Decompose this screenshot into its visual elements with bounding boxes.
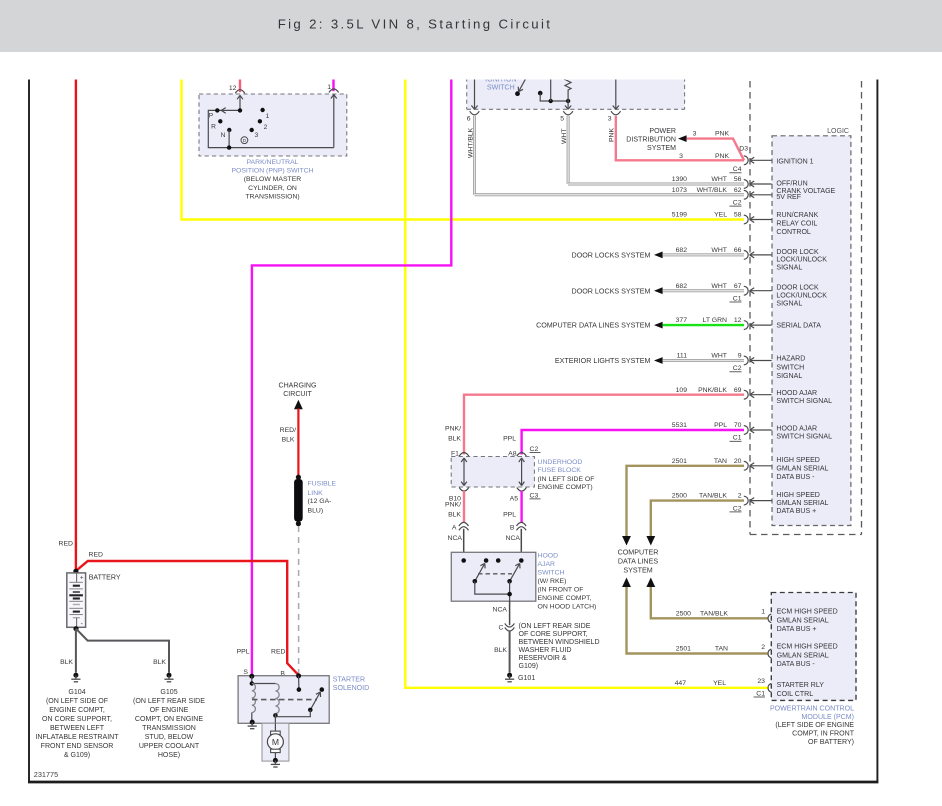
- ignition switch box (top cropped): [467, 70, 685, 109]
- svg-text:PPL: PPL: [237, 649, 250, 656]
- svg-text:BLK: BLK: [494, 647, 507, 654]
- svg-text:OF ENGINE: OF ENGINE: [150, 707, 189, 714]
- ignition switch label: [485, 76, 516, 91]
- wire TAN/BLK 2500 (PCM 2 to data lines): [651, 501, 744, 537]
- svg-text:AJAR: AJAR: [538, 561, 556, 568]
- fusible link (12 GA BLU): [294, 475, 303, 527]
- svg-text:3: 3: [693, 131, 697, 138]
- svg-text:RESERVOIR &: RESERVOIR &: [519, 655, 567, 662]
- svg-text:TAN/BLK: TAN/BLK: [699, 493, 727, 500]
- PCM LOGIC box: [772, 128, 851, 525]
- ground G104: [71, 673, 80, 682]
- svg-text:231775: 231775: [34, 770, 58, 779]
- PCM outer connector dashed line (left): [749, 70, 751, 535]
- svg-text:C2: C2: [733, 365, 742, 372]
- svg-text:PNK: PNK: [715, 153, 730, 160]
- svg-text:STARTER: STARTER: [333, 677, 365, 684]
- svg-text:DATA BUS +: DATA BUS +: [777, 626, 817, 633]
- arrow down to computer data lines (right): [646, 536, 655, 546]
- solenoid hold-in coil: [273, 684, 279, 724]
- connector C2 label (fuse top): [530, 446, 541, 453]
- svg-text:109: 109: [676, 387, 688, 394]
- svg-text:BATTERY: BATTERY: [89, 575, 121, 582]
- svg-text:& G109): & G109): [64, 752, 90, 759]
- svg-text:G101: G101: [518, 675, 535, 682]
- PCM lower box: [771, 593, 856, 701]
- wire PPL below fuse (A5 to B): [503, 491, 522, 523]
- svg-text:IGNITION 1: IGNITION 1: [776, 159, 813, 166]
- svg-text:BLK: BLK: [153, 659, 166, 666]
- svg-text:FRONT END SENSOR: FRONT END SENSOR: [41, 743, 114, 750]
- svg-text:SIGNAL: SIGNAL: [776, 265, 802, 272]
- svg-text:6: 6: [467, 115, 471, 122]
- svg-text:2500: 2500: [672, 493, 687, 500]
- svg-text:377: 377: [676, 317, 688, 324]
- solenoid moving contact lever: [308, 692, 321, 712]
- PCM outer dashed box right edge: [861, 70, 863, 535]
- ignition switch contact and link wire: [538, 70, 570, 103]
- svg-text:2: 2: [738, 493, 742, 500]
- svg-text:DATA BUS +: DATA BUS +: [776, 508, 816, 515]
- wire PNK 3 from power distribution to PCM C4: [687, 131, 744, 161]
- svg-text:G104: G104: [68, 689, 85, 696]
- ignition resistor element: [565, 70, 571, 101]
- svg-text:TAN: TAN: [715, 646, 728, 653]
- solenoid pull-in coil: [252, 684, 256, 723]
- ignition pin 3: [608, 70, 621, 122]
- svg-text:OFF/RUN: OFF/RUN: [776, 180, 807, 187]
- svg-text:3: 3: [608, 115, 612, 122]
- computer data lines system label: [618, 548, 659, 574]
- svg-text:GMLAN SERIAL: GMLAN SERIAL: [776, 466, 828, 473]
- fuse A5 exit: [510, 488, 527, 503]
- svg-text:DISTRIBUTION: DISTRIBUTION: [626, 136, 676, 143]
- starter solenoid B junction: [296, 673, 301, 678]
- svg-text:G105: G105: [160, 689, 177, 696]
- svg-text:9: 9: [738, 353, 742, 360]
- svg-text:66: 66: [734, 247, 742, 254]
- starter motor ground: [271, 758, 280, 767]
- starter motor: [267, 731, 283, 753]
- svg-text:A5: A5: [510, 495, 519, 502]
- wire TAN/BLK 2500 (data lines to PCM-2 pin 1): [651, 587, 768, 618]
- svg-text:DOOR LOCKS SYSTEM: DOOR LOCKS SYSTEM: [572, 252, 651, 260]
- svg-text:G109): G109): [519, 663, 539, 670]
- svg-text:C1: C1: [733, 295, 742, 302]
- PNP contact 2: [258, 119, 268, 131]
- svg-text:TRANSMISSION): TRANSMISSION): [245, 193, 299, 200]
- svg-text:WHT: WHT: [561, 129, 568, 144]
- svg-text:INFLATABLE RESTRAINT: INFLATABLE RESTRAINT: [35, 734, 119, 741]
- PCM pin 12 - SERIAL DATA: [676, 317, 822, 330]
- svg-text:(LEFT SIDE OF ENGINE: (LEFT SIDE OF ENGINE: [775, 722, 854, 729]
- svg-text:ENGINE COMPT,: ENGINE COMPT,: [49, 707, 105, 714]
- svg-text:RUN/CRANK: RUN/CRANK: [776, 212, 818, 219]
- label RED at solenoid B: [271, 649, 286, 656]
- door locks system reference (pin 66): [572, 252, 744, 260]
- label 2500 TAN/BLK 1 (lower): [676, 610, 729, 617]
- svg-text:YEL: YEL: [713, 680, 726, 687]
- wire RED/BLK charging to fusible link: [280, 409, 299, 477]
- svg-text:EXTERIOR LIGHTS SYSTEM: EXTERIOR LIGHTS SYSTEM: [555, 357, 651, 365]
- PNP contact P: [209, 108, 220, 119]
- solenoid fixed contact: [320, 687, 325, 692]
- wire TAN 2501 (PCM 20 to data lines): [627, 466, 745, 536]
- svg-text:HOOD: HOOD: [538, 552, 559, 559]
- PCM pin 56 - OFF/RUN: [672, 176, 808, 188]
- svg-text:DATA BUS -: DATA BUS -: [776, 474, 815, 481]
- svg-text:SYSTEM: SYSTEM: [647, 145, 676, 152]
- svg-text:SOLENOID: SOLENOID: [333, 685, 369, 692]
- svg-text:PARK/NEUTRAL: PARK/NEUTRAL: [247, 159, 299, 166]
- svg-text:RED: RED: [89, 551, 104, 558]
- PNP contact R: [211, 119, 222, 131]
- fuse F1 entry: [451, 450, 469, 457]
- svg-text:WHT: WHT: [711, 247, 727, 254]
- arrow up from computer data lines (right): [646, 578, 655, 588]
- svg-text:COMPUTER: COMPUTER: [618, 548, 659, 556]
- svg-text:69: 69: [734, 387, 742, 394]
- computer data lines system reference (pin 12): [536, 322, 744, 330]
- svg-text:DOOR LOCKS SYSTEM: DOOR LOCKS SYSTEM: [572, 287, 651, 295]
- starter solenoid S junction: [249, 674, 254, 679]
- svg-text:UPPER COOLANT: UPPER COOLANT: [139, 743, 200, 750]
- svg-text:ON HOOD LATCH): ON HOOD LATCH): [538, 603, 597, 610]
- svg-text:ECM HIGH SPEED: ECM HIGH SPEED: [777, 608, 838, 615]
- svg-text:(12 GA-: (12 GA-: [308, 498, 332, 505]
- svg-text:MODULE (PCM): MODULE (PCM): [802, 714, 854, 721]
- wire PNK/BLK 109 (PCM 69 to fuse F1): [445, 395, 744, 455]
- title bar: [0, 0, 942, 52]
- label 2501 TAN 2 (lower): [676, 646, 728, 653]
- svg-text:LINK: LINK: [308, 490, 324, 497]
- svg-text:WHT: WHT: [711, 283, 727, 290]
- label 447 YEL 23: [675, 680, 727, 687]
- svg-text:C4: C4: [733, 166, 742, 173]
- svg-text:PNK: PNK: [715, 131, 730, 138]
- svg-text:DOOR LOCK: DOOR LOCK: [776, 285, 819, 292]
- svg-text:2500: 2500: [676, 610, 691, 617]
- svg-text:(BELOW MASTER: (BELOW MASTER: [244, 176, 301, 183]
- ground G101: [505, 673, 535, 682]
- svg-text:682: 682: [676, 283, 688, 290]
- svg-text:B: B: [510, 524, 515, 531]
- wire YEL 447 (vertical drop to starter rly row): [405, 70, 767, 688]
- svg-text:ENGINE COMPT): ENGINE COMPT): [538, 484, 593, 491]
- svg-text:WHT/BLK: WHT/BLK: [697, 187, 728, 194]
- starter solenoid box: [238, 676, 329, 724]
- svg-text:TAN: TAN: [714, 458, 727, 465]
- solenoid linkage (dashed): [252, 699, 317, 701]
- svg-text:STUD, BELOW: STUD, BELOW: [145, 734, 194, 741]
- PNP contact 1: [260, 108, 269, 120]
- pin D3 label: [739, 146, 748, 153]
- svg-text:C1: C1: [733, 435, 742, 442]
- wire TAN 2501 (data lines to PCM-2 pin 2): [627, 587, 768, 654]
- svg-text:111: 111: [677, 353, 688, 360]
- ignition switch lever: [515, 79, 525, 96]
- hood ajar switch box: [451, 552, 536, 601]
- svg-text:CHARGING: CHARGING: [279, 382, 317, 389]
- svg-text:70: 70: [734, 422, 742, 429]
- powertrain control module label: [770, 705, 855, 746]
- svg-text:SWITCH: SWITCH: [538, 569, 565, 576]
- svg-text:PPL: PPL: [714, 422, 727, 429]
- svg-text:C2: C2: [733, 200, 742, 207]
- svg-text:NCA: NCA: [493, 607, 508, 614]
- svg-text:DATA BUS -: DATA BUS -: [777, 661, 816, 668]
- hood ajar switch lever right: [507, 563, 520, 583]
- PCM pin 70 - HOOD AJAR SWITCH SIGNAL: [672, 422, 832, 442]
- wire BLK battery to G105: [76, 629, 169, 673]
- svg-text:WHT: WHT: [711, 176, 727, 183]
- hood ajar switch label: [538, 552, 597, 610]
- svg-text:COIL CTRL: COIL CTRL: [777, 691, 814, 698]
- wire PNK stub to PNP pin 12: [239, 70, 241, 92]
- svg-text:UNDERHOOD: UNDERHOOD: [538, 459, 583, 466]
- fuse element F1-B10: [461, 458, 467, 486]
- svg-text:HOOD AJAR: HOOD AJAR: [776, 390, 817, 397]
- solenoid coil top wire: [250, 676, 276, 686]
- svg-text:POSITION (PNP) SWITCH: POSITION (PNP) SWITCH: [231, 168, 313, 175]
- wire PNK 3 from pin 3: [609, 116, 745, 161]
- label S terminal: [243, 669, 248, 676]
- svg-text:FUSE BLOCK: FUSE BLOCK: [538, 467, 582, 474]
- arrow up from computer data lines (left): [622, 578, 631, 588]
- fusible link label: [308, 480, 337, 514]
- svg-text:PNK/: PNK/: [445, 502, 461, 509]
- svg-text:PNK/BLK: PNK/BLK: [698, 387, 727, 394]
- svg-text:2501: 2501: [676, 646, 691, 653]
- svg-text:POWERTRAIN CONTROL: POWERTRAIN CONTROL: [770, 705, 854, 712]
- svg-text:2: 2: [264, 124, 268, 131]
- PNP contact 3: [250, 128, 259, 139]
- svg-text:BLK: BLK: [282, 437, 295, 444]
- svg-text:SWITCH SIGNAL: SWITCH SIGNAL: [776, 434, 832, 441]
- fuse B10 exit: [449, 488, 469, 503]
- wire RED battery feed (vertical from top to battery +): [75, 70, 77, 572]
- svg-text:LOCK/UNLOCK: LOCK/UNLOCK: [776, 257, 827, 264]
- PCM pin 67 - DOOR LOCK LOCK/UNLOCK SIGNAL: [676, 283, 828, 308]
- svg-text:56: 56: [734, 176, 742, 183]
- svg-text:C1: C1: [756, 690, 765, 697]
- svg-text:WASHER FLUID: WASHER FLUID: [519, 647, 572, 654]
- svg-text:3: 3: [679, 153, 683, 160]
- solenoid coil ground: [248, 720, 257, 729]
- svg-text:2: 2: [761, 644, 765, 651]
- PCM pin C4 entry - IGNITION 1: [744, 156, 814, 166]
- wire PPL 5531 (PCM 70 to fuse A8): [503, 430, 744, 455]
- svg-text:12: 12: [229, 85, 237, 92]
- svg-text:A8: A8: [508, 450, 517, 457]
- svg-text:ENGINE COMPT,: ENGINE COMPT,: [538, 595, 592, 602]
- svg-text:CIRCUIT: CIRCUIT: [283, 391, 312, 398]
- svg-text:RED/: RED/: [280, 427, 296, 434]
- hood ajar switch linkage (dashed): [478, 573, 512, 575]
- svg-text:HIGH SPEED: HIGH SPEED: [776, 457, 819, 464]
- figure number 231775: [34, 770, 58, 779]
- svg-text:1073: 1073: [672, 187, 687, 194]
- solenoid lever wire: [275, 710, 310, 717]
- svg-text:2501: 2501: [672, 458, 687, 465]
- starter solenoid label: [333, 677, 369, 693]
- svg-text:PNK/: PNK/: [445, 426, 461, 433]
- svg-text:C3: C3: [530, 492, 539, 499]
- svg-text:HOSE): HOSE): [158, 752, 180, 759]
- wire WHT/BLK 1073 from pin 6: [467, 116, 744, 195]
- svg-text:C2: C2: [733, 505, 742, 512]
- starter motor wire bottom: [274, 753, 276, 759]
- svg-text:682: 682: [676, 247, 688, 254]
- hood ajar switch lever left: [473, 563, 486, 583]
- svg-text:STARTER RLY: STARTER RLY: [777, 682, 825, 689]
- svg-text:+: +: [80, 575, 84, 582]
- ground G105: [164, 673, 173, 682]
- svg-text:NCA: NCA: [448, 535, 463, 542]
- svg-text:62: 62: [734, 187, 742, 194]
- svg-text:PNK: PNK: [609, 128, 616, 142]
- wire B to hood ajar switch: [506, 529, 522, 561]
- svg-text:447: 447: [675, 680, 687, 687]
- svg-text:PPL: PPL: [503, 511, 516, 518]
- label RED (starter feed): [89, 551, 104, 558]
- PCM pin 58 - RUN/CRANK RELAY COIL CONTROL: [672, 212, 819, 237]
- svg-text:HOOD AJAR: HOOD AJAR: [776, 425, 817, 432]
- svg-text:SIGNAL: SIGNAL: [776, 300, 802, 307]
- svg-text:COMPT, IN FRONT: COMPT, IN FRONT: [792, 731, 855, 738]
- PCM-2 pin 23 - STARTER RLY COIL CTRL: [754, 678, 825, 698]
- PNP contact N: [221, 128, 232, 139]
- svg-text:NCA: NCA: [506, 535, 521, 542]
- svg-text:A: A: [452, 524, 457, 531]
- svg-text:(IN LEFT SIDE OF: (IN LEFT SIDE OF: [538, 476, 595, 483]
- svg-text:ON CORE SUPPORT,: ON CORE SUPPORT,: [42, 716, 112, 723]
- PNP pin 1 entry: [327, 84, 338, 147]
- battery box: [67, 573, 86, 627]
- wire (hidden) fusible link to solenoid B: [298, 526, 300, 676]
- svg-text:P: P: [209, 113, 214, 120]
- svg-text:BETWEEN LEFT: BETWEEN LEFT: [50, 725, 105, 732]
- PNP contact N drop wire: [227, 130, 231, 150]
- svg-text:(ON LEFT SIDE OF: (ON LEFT SIDE OF: [46, 698, 109, 705]
- inline connector A: [452, 522, 469, 531]
- svg-text:CONTROL: CONTROL: [776, 229, 811, 236]
- svg-text:SERIAL DATA: SERIAL DATA: [776, 323, 821, 330]
- PCM pin 62 - CRANK VOLTAGE 5V REF: [672, 187, 836, 207]
- svg-text:HIGH SPEED: HIGH SPEED: [776, 492, 819, 499]
- svg-text:BLK: BLK: [60, 659, 73, 666]
- label RED (battery feed): [59, 540, 74, 547]
- PNP pin 12 entry: [229, 85, 245, 111]
- svg-text:HAZARD: HAZARD: [776, 356, 805, 363]
- underhood fuse block box: [451, 457, 534, 488]
- connector C3 label (fuse bottom): [530, 492, 541, 499]
- svg-text:TAN/BLK: TAN/BLK: [700, 610, 728, 617]
- svg-text:YEL: YEL: [714, 212, 727, 219]
- battery label: [89, 575, 121, 582]
- wire A to hood ajar switch: [448, 529, 464, 561]
- svg-text:BLK: BLK: [448, 435, 461, 442]
- PCM pin 69 - HOOD AJAR SWITCH SIGNAL: [676, 387, 833, 405]
- svg-text:BLK: BLK: [448, 511, 461, 518]
- solenoid contact B drop: [297, 676, 302, 692]
- svg-text:BETWEEN WINDSHIELD: BETWEEN WINDSHIELD: [519, 639, 600, 646]
- G104 location note: [35, 689, 119, 759]
- PNP wiper arrow: [221, 108, 242, 114]
- svg-text:N: N: [221, 132, 226, 139]
- svg-text:20: 20: [734, 458, 742, 465]
- PCM-2 pin 1 - ECM HIGH SPEED GMLAN SERIAL DATA BUS +: [761, 608, 838, 633]
- svg-text:D3: D3: [739, 146, 748, 153]
- svg-text:5V REF: 5V REF: [776, 194, 801, 201]
- svg-text:LT GRN: LT GRN: [703, 317, 728, 324]
- svg-text:S: S: [243, 669, 248, 676]
- G105 location note: [133, 689, 205, 759]
- svg-text:23: 23: [757, 678, 765, 685]
- charging circuit reference: [279, 382, 317, 409]
- svg-text:WHT/BLK: WHT/BLK: [467, 127, 474, 158]
- wire RED battery to starter (branch): [76, 561, 299, 675]
- svg-text:F1: F1: [451, 450, 459, 457]
- PCM pin 2 - HIGH SPEED GMLAN SERIAL DATA BUS +: [672, 492, 829, 515]
- svg-text:(IN FRONT OF: (IN FRONT OF: [538, 586, 584, 593]
- ignition pin 5: [560, 101, 573, 122]
- svg-text:LOCK/UNLOCK: LOCK/UNLOCK: [776, 293, 827, 300]
- hood ajar switch internal wire: [475, 581, 512, 601]
- svg-text:1: 1: [266, 113, 270, 120]
- svg-text:COMPUTER DATA LINES SYSTEM: COMPUTER DATA LINES SYSTEM: [536, 322, 650, 330]
- svg-text:ECM HIGH SPEED: ECM HIGH SPEED: [777, 644, 838, 651]
- inline connector B: [510, 522, 526, 531]
- wire PPL stub to PNP pin 1: [332, 70, 334, 91]
- svg-text:RED: RED: [271, 649, 286, 656]
- svg-text:COMPT, ON ENGINE: COMPT, ON ENGINE: [135, 716, 203, 723]
- svg-text:5199: 5199: [672, 212, 687, 219]
- svg-text:DATA LINES: DATA LINES: [618, 557, 658, 565]
- svg-text:58: 58: [734, 212, 742, 219]
- svg-text:LOGIC: LOGIC: [827, 128, 849, 135]
- PNP switch internal frame: [208, 110, 333, 147]
- svg-text:(ON LEFT REAR SIDE: (ON LEFT REAR SIDE: [133, 698, 205, 705]
- exterior lights system reference (pin 9): [555, 357, 744, 365]
- svg-text:SWITCH SIGNAL: SWITCH SIGNAL: [776, 398, 832, 405]
- svg-text:CYLINDER, ON: CYLINDER, ON: [248, 185, 297, 192]
- inline connector C: [499, 623, 515, 631]
- svg-text:SWITCH: SWITCH: [776, 364, 804, 371]
- wire WHT 1390 from pin 5: [561, 116, 744, 184]
- wire BLK battery to G104: [60, 629, 76, 673]
- svg-text:SIGNAL: SIGNAL: [776, 373, 802, 380]
- battery cell plates: [69, 573, 84, 628]
- park/neutral position switch box: [199, 94, 347, 156]
- label 3 PNK lower: [679, 153, 729, 160]
- svg-text:GMLAN SERIAL: GMLAN SERIAL: [776, 500, 828, 507]
- svg-text:M: M: [272, 737, 279, 747]
- door locks system reference (pin 67): [572, 287, 744, 295]
- svg-text:(W/ RKE): (W/ RKE): [538, 578, 567, 585]
- svg-text:1390: 1390: [672, 176, 687, 183]
- fuse element A8-A5: [519, 458, 525, 486]
- PCM pin 20 - HIGH SPEED GMLAN SERIAL DATA BUS -: [672, 457, 829, 481]
- svg-text:OF BATTERY): OF BATTERY): [808, 739, 854, 746]
- svg-text:POWER: POWER: [649, 128, 676, 135]
- wire PPL to starter solenoid S (magenta route): [252, 70, 451, 676]
- battery positive junction: [73, 569, 78, 574]
- underhood fuse block label: [538, 459, 595, 491]
- svg-text:R: R: [211, 124, 216, 131]
- PNP contact D (circled): [241, 137, 248, 144]
- svg-text:BLU): BLU): [308, 507, 324, 514]
